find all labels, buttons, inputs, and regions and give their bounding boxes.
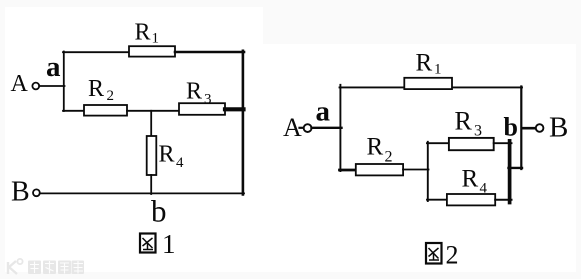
terminal A circle [304,124,312,132]
caption 图1 glyph box [140,234,156,253]
svg-text:R: R [159,142,175,168]
svg-text:2: 2 [385,149,393,166]
svg-text:R: R [186,79,202,105]
svg-text:a: a [46,51,61,83]
resistor R3 body [179,103,225,115]
resistor R4 body [447,194,495,205]
wire R2 to parallel group [403,169,429,171]
wire top rail [340,86,523,88]
wire bottom rail [40,192,244,194]
wire to R3 left [427,142,450,144]
wire top left segment [63,51,130,53]
svg-text:R: R [455,107,473,136]
wire middle left segment [63,110,85,112]
svg-text:R: R [367,134,384,161]
resistor R1 body [404,78,452,89]
svg-text:B: B [11,177,30,208]
resistor R4 body (vertical) [147,136,157,175]
wire A to node a [312,127,342,129]
svg-text:4: 4 [176,155,184,171]
svg-text:B: B [549,112,568,144]
svg-text:b: b [504,113,518,142]
terminal B circle [33,189,40,196]
svg-text:3: 3 [474,123,482,140]
wire bottom rail stub (thick) [340,169,357,172]
resistor R2 body [84,105,127,116]
wire R2 to R3 [127,110,180,112]
svg-text:a: a [316,96,331,128]
terminal A lead tick [300,127,304,129]
svg-text:R: R [416,50,433,77]
svg-text:3: 3 [204,92,212,108]
wire R3 right to group vertical [494,142,512,144]
wire top right segment (thick) [175,51,244,54]
caption 图2 glyph box [426,243,442,264]
svg-text:A: A [11,71,29,97]
wire b to terminal B [522,127,536,130]
resistor R3 body [449,138,494,150]
left figure white panel [5,7,263,272]
wire R4 right to group vertical [495,199,511,201]
wire parallel group left vertical [427,142,429,201]
wire jog group to right vertical [509,167,523,169]
wire junction down to R4 [150,111,152,137]
wire to R4 left [427,199,448,201]
svg-text:1: 1 [152,31,160,47]
wire R3 to right vertical (thick stub) [225,107,244,111]
svg-text:2: 2 [446,241,459,270]
watermark logo mark [8,259,23,274]
wire parallel group right vertical (thick) [508,141,512,203]
svg-text:R: R [462,166,479,193]
svg-text:1: 1 [162,229,176,259]
wire right vertical [520,87,522,170]
svg-text:4: 4 [480,181,488,197]
wire R4 down to bottom rail [150,175,152,194]
svg-text:R: R [135,20,151,46]
wire left vertical (node a riser) [63,52,65,112]
wire left vertical [339,85,341,171]
terminal A circle [32,83,39,90]
terminal B circle [536,124,544,132]
svg-text:R: R [88,76,104,102]
svg-text:2: 2 [107,88,115,104]
svg-text:b: b [151,194,167,229]
wire right vertical [242,51,245,195]
resistor R2 body [356,164,403,175]
resistor R1 body [129,46,175,56]
wire A to node a [39,85,64,87]
watermark text blobs [28,261,84,275]
svg-text:1: 1 [434,62,442,78]
right figure white panel [263,44,576,272]
